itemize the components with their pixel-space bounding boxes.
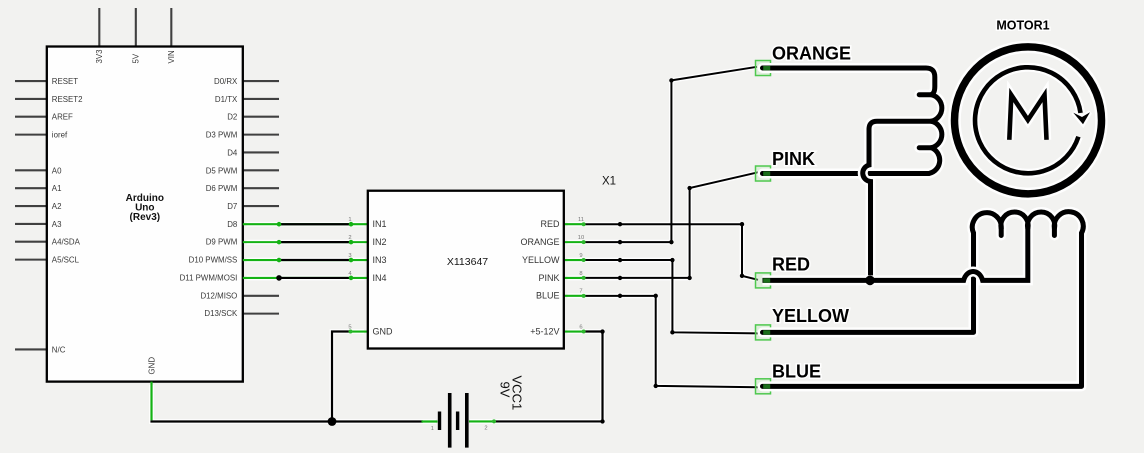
svg-text:IN3: IN3: [373, 255, 387, 265]
svg-text:GND: GND: [147, 357, 156, 375]
pin labels rotated: 3V3 5V VIN GND: [95, 49, 176, 375]
svg-text:3: 3: [348, 253, 351, 259]
svg-text:3V3: 3V3: [95, 49, 104, 64]
svg-text:1: 1: [431, 426, 434, 432]
wire battery pin 2 to X1 +5-12V pin 6: [469, 332, 603, 422]
svg-text:8: 8: [579, 271, 582, 277]
wire X1 BLUE pin 7 to BLUE terminal: [584, 296, 758, 387]
wire X1 RED pin 11 to RED terminal: [584, 224, 758, 280]
pin numbers battery 1 2: [431, 426, 488, 433]
svg-text:7: 7: [579, 289, 582, 295]
wire RED terminal to coil center taps (hop over YELLOW riser): [763, 243, 1028, 280]
node BLUE terminal: [756, 379, 771, 394]
terminal end markers (dark green): [763, 66, 770, 389]
wire ground junction to battery pin 1: [332, 420, 423, 422]
svg-text:2: 2: [484, 426, 487, 432]
wire D11 to X1 IN4: [243, 275, 368, 281]
pin stub GND pin 5: [351, 330, 368, 332]
svg-text:RED: RED: [772, 255, 810, 275]
wire X1 YELLOW pin 9 to YELLOW terminal: [584, 260, 758, 333]
arrow head: [1073, 112, 1090, 124]
svg-text:D5 PWM: D5 PWM: [206, 166, 238, 175]
pin end dots (green): [349, 222, 586, 423]
wire D8 to X1 IN1: [243, 222, 368, 227]
pin labels right: [180, 77, 238, 318]
wire phase A center tap vertical with hop over PINK: [863, 130, 871, 281]
svg-text:X113647: X113647: [447, 256, 488, 268]
junction RED net: [865, 276, 875, 286]
svg-text:9V: 9V: [498, 382, 513, 398]
svg-text:+5-12V: +5-12V: [530, 327, 559, 337]
svg-text:AREF: AREF: [52, 113, 73, 122]
junction GND net: [328, 417, 337, 426]
node PINK terminal: [756, 166, 771, 181]
svg-text:IN1: IN1: [373, 219, 387, 229]
motor MOTOR1 phase B: YELLOW lead, coil, BLUE lead, center tap: [763, 212, 1084, 387]
node ORANGE terminal: [756, 61, 771, 76]
wire D9 to X1 IN2: [243, 240, 368, 245]
svg-text:IN4: IN4: [373, 273, 387, 283]
svg-text:A0: A0: [52, 166, 62, 175]
pin stubs right: D0-D7, D12, D13 (unconnected): [243, 81, 279, 314]
svg-text:YELLOW: YELLOW: [772, 306, 849, 326]
svg-text:D11 PWM/MOSI: D11 PWM/MOSI: [180, 274, 238, 283]
svg-text:5V: 5V: [132, 53, 141, 63]
pin labels IN1-IN4 GND: [373, 219, 394, 336]
letter M: [1009, 95, 1046, 140]
svg-text:IN2: IN2: [373, 237, 387, 247]
wire X1 ORANGE pin 10 to ORANGE terminal: [584, 67, 757, 242]
svg-text:2: 2: [348, 235, 351, 241]
svg-text:ORANGE: ORANGE: [520, 237, 559, 247]
svg-text:1: 1: [348, 217, 351, 223]
IC X1 X113647 stepper motor driver: [348, 176, 616, 349]
svg-text:D13/SCK: D13/SCK: [204, 309, 238, 318]
svg-text:PINK: PINK: [538, 273, 559, 283]
node RED terminal: [756, 273, 771, 288]
svg-text:D6 PWM: D6 PWM: [206, 184, 238, 193]
battery VCC1: [440, 393, 467, 448]
body U1: [47, 47, 243, 382]
svg-text:D0/RX: D0/RX: [214, 77, 238, 86]
body X1: [368, 191, 564, 349]
svg-text:D3 PWM: D3 PWM: [206, 131, 238, 140]
svg-text:(Rev3): (Rev3): [130, 212, 161, 223]
svg-text:RED: RED: [540, 219, 560, 229]
svg-text:6: 6: [579, 325, 582, 331]
svg-text:D10 PWM/SS: D10 PWM/SS: [189, 256, 238, 265]
wire casings (white halos under thin wires): [152, 67, 759, 422]
wire segment ground run to junction: [150, 420, 332, 422]
svg-text:RESET: RESET: [52, 77, 78, 86]
wire X1 PINK pin 8 to PINK terminal: [584, 172, 758, 278]
svg-text:PINK: PINK: [772, 149, 815, 169]
svg-text:ORANGE: ORANGE: [772, 43, 851, 63]
svg-text:D12/MISO: D12/MISO: [200, 291, 237, 300]
svg-text:BLUE: BLUE: [772, 362, 821, 382]
bend dots +5-12V wire: [600, 329, 604, 333]
svg-text:GND: GND: [373, 327, 394, 337]
value label VCC1 9V: [498, 376, 525, 411]
motor MOTOR1 phase A: ORANGE lead, coil, PINK lead, center tap: [763, 68, 942, 174]
wire D10 to X1 IN3: [243, 258, 368, 263]
svg-text:X1: X1: [602, 176, 616, 188]
motor MOTOR1 body circle: [955, 47, 1102, 194]
svg-text:A5/SCL: A5/SCL: [52, 256, 80, 265]
svg-text:D1/TX: D1/TX: [215, 95, 238, 104]
pin stubs left: RESET RESET2 AREF ioref A0-A5 N/C: [15, 81, 47, 349]
IC U1 Arduino Uno (Rev3): [15, 8, 279, 382]
svg-text:D4: D4: [227, 148, 238, 157]
svg-text:A1: A1: [52, 184, 62, 193]
svg-text:BLUE: BLUE: [536, 291, 560, 301]
wire X1 GND pin 5 to ground junction: [332, 332, 351, 422]
svg-text:A3: A3: [52, 220, 62, 229]
svg-text:A4/SDA: A4/SDA: [52, 238, 81, 247]
part label Arduino Uno (Rev3): [126, 193, 164, 223]
svg-text:A2: A2: [52, 202, 62, 211]
wire Arduino GND to ground junction (green): [150, 382, 152, 421]
pin numbers 1-5 and 11-6: [348, 217, 584, 330]
pin stubs right pins 11 10 9 8 7 6: [564, 224, 584, 331]
svg-text:VIN: VIN: [167, 50, 176, 63]
pin labels left: [52, 77, 83, 354]
pin stubs top: 3V3 5V VIN: [99, 8, 171, 47]
svg-text:N/C: N/C: [52, 345, 66, 354]
svg-text:D8: D8: [227, 220, 238, 229]
svg-text:MOTOR1: MOTOR1: [996, 19, 1049, 33]
svg-text:D9 PWM: D9 PWM: [206, 238, 238, 247]
svg-text:ioref: ioref: [52, 131, 68, 140]
svg-text:9: 9: [579, 253, 582, 259]
svg-text:D2: D2: [227, 113, 237, 122]
svg-text:YELLOW: YELLOW: [522, 255, 560, 265]
rotation arrow arc: [975, 67, 1080, 173]
node YELLOW terminal: [756, 325, 771, 340]
pin labels RED ORANGE YELLOW PINK BLUE +5-12V: [520, 219, 560, 336]
svg-text:D7: D7: [227, 202, 237, 211]
svg-text:RESET2: RESET2: [52, 95, 83, 104]
